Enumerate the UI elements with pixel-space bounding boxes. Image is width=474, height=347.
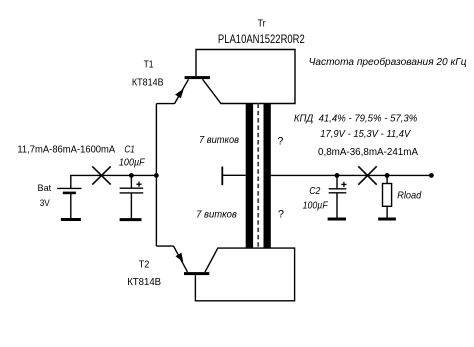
svg-text:T1: T1 bbox=[144, 60, 154, 71]
T2 emitter arrow bbox=[176, 253, 184, 262]
wire output rail bbox=[271, 174, 432, 176]
svg-text:КТ814В: КТ814В bbox=[132, 78, 164, 89]
svg-text:100µF: 100µF bbox=[303, 200, 329, 212]
ground C1 bbox=[120, 218, 142, 221]
node C2 junction bbox=[335, 173, 340, 178]
ground C2 bbox=[328, 218, 346, 221]
wire battery positive lead to rail bbox=[71, 175, 157, 188]
svg-text:?: ? bbox=[278, 209, 284, 221]
svg-text:Bat: Bat bbox=[38, 183, 52, 194]
battery Bat plate short bbox=[63, 192, 76, 195]
transistor T2 bbox=[156, 246, 209, 275]
break symbol X2 bbox=[358, 166, 376, 184]
transformer Tr secondary winding bar bbox=[264, 104, 271, 248]
ground Rload bbox=[378, 218, 396, 221]
node C1 junction bbox=[129, 173, 134, 178]
wire C2 bottom lead bbox=[336, 193, 338, 218]
node output terminal bbox=[429, 173, 434, 178]
wire C1 bottom lead bbox=[130, 193, 132, 219]
T2 base bar bbox=[184, 272, 209, 275]
svg-text:C2: C2 bbox=[309, 185, 320, 197]
svg-text:C1: C1 bbox=[124, 143, 134, 155]
capacitor C1 top plate bbox=[120, 187, 144, 189]
center tap terminal bar bbox=[221, 167, 223, 186]
wire C1 top lead bbox=[130, 175, 132, 188]
capacitor C2 bottom plate bbox=[329, 192, 347, 194]
svg-text:7 витков: 7 витков bbox=[199, 135, 239, 146]
svg-text:7 витков: 7 витков bbox=[196, 209, 237, 220]
svg-text:0,8mA-36,8mA-241mA: 0,8mA-36,8mA-241mA bbox=[318, 146, 418, 158]
T2 emitter diagonal bbox=[174, 246, 188, 272]
svg-text:17,9V - 15,3V - 11,4V: 17,9V - 15,3V - 11,4V bbox=[320, 128, 411, 140]
plus sign C2 bbox=[341, 182, 346, 187]
svg-text:?: ? bbox=[277, 136, 283, 148]
wire C2 top lead bbox=[336, 175, 338, 188]
wire top winding loop with T1 base and collector bbox=[196, 50, 295, 104]
svg-text:КТ814В: КТ814В bbox=[127, 277, 161, 288]
capacitor C1 bottom plate bbox=[120, 192, 144, 194]
wire battery negative lead bbox=[70, 193, 72, 219]
svg-text:Частота преобразования 20 кГц: Частота преобразования 20 кГц bbox=[309, 56, 467, 68]
transformer Tr primary winding bar bbox=[246, 104, 253, 248]
plus sign C1 bbox=[136, 182, 141, 187]
transistor T1 bbox=[156, 76, 210, 104]
svg-text:100µF: 100µF bbox=[119, 157, 145, 169]
node emitter rail junction bbox=[154, 173, 159, 178]
svg-text:T2: T2 bbox=[139, 259, 150, 270]
wire Rload top lead bbox=[386, 175, 388, 183]
break symbol X1 bbox=[92, 166, 110, 184]
svg-text:Rload: Rload bbox=[397, 190, 422, 202]
svg-text:Tr: Tr bbox=[258, 18, 267, 29]
svg-text:11,7mA-86mA-1600mA: 11,7mA-86mA-1600mA bbox=[17, 144, 115, 155]
T1 emitter arrow bbox=[175, 89, 184, 99]
wire T1 emitter horizontal bbox=[156, 103, 174, 105]
resistor Rload bbox=[383, 184, 392, 207]
wire center tap bbox=[222, 174, 245, 176]
battery Bat plate long bbox=[57, 187, 81, 189]
wire bottom winding loop with T2 base and collector bbox=[195, 248, 294, 301]
capacitor C2 top plate bbox=[329, 188, 347, 190]
svg-text:КПД 41,4% - 79,5% - 57,3%: КПД 41,4% - 79,5% - 57,3% bbox=[294, 112, 417, 124]
svg-text:3V: 3V bbox=[40, 198, 51, 209]
T1 emitter diagonal bbox=[175, 79, 189, 103]
wire emitter rail vertical bbox=[155, 104, 157, 247]
node Rload junction bbox=[385, 173, 390, 178]
ground battery bbox=[61, 218, 81, 221]
T1 base bar bbox=[185, 76, 210, 79]
transformer Tr core dashed line bbox=[257, 104, 259, 248]
wire T2 emitter horizontal bbox=[156, 245, 173, 247]
wire Rload bottom lead bbox=[386, 206, 388, 218]
svg-text:PLA10AN1522R0R2: PLA10AN1522R0R2 bbox=[218, 34, 305, 46]
